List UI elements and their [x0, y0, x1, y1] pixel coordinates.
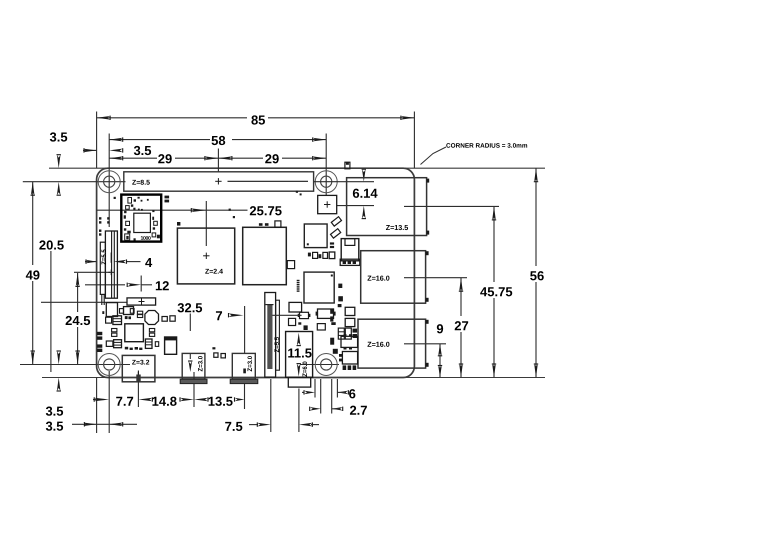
svg-text:Z=3.0: Z=3.0 [198, 355, 204, 371]
parts below LAN chip [308, 252, 335, 259]
dimension 58 [109, 133, 326, 148]
wire hole row top-left [23, 181, 126, 183]
dimension 4 [85, 255, 153, 270]
dimension 14.8 [138, 394, 194, 409]
dimension 32.5 [177, 300, 202, 372]
svg-text:45.75: 45.75 [480, 284, 513, 299]
wire GPIO centre extension [217, 149, 219, 172]
svg-text:Z=16.0: Z=16.0 [367, 340, 390, 349]
wire ethernet centre inner [337, 205, 374, 207]
corner radius note [421, 143, 528, 165]
parts right of camera connector [289, 302, 302, 325]
dimension 27 [452, 278, 472, 378]
RAM U2 [243, 227, 287, 284]
HDMI connector J6 [180, 353, 207, 383]
wire hole row bottom-left [20, 364, 130, 366]
svg-text:32.5: 32.5 [177, 300, 202, 315]
svg-text:6.14: 6.14 [352, 186, 378, 201]
svg-text:7.7: 7.7 [116, 394, 134, 409]
dimension 49 [25, 182, 42, 365]
svg-text:85: 85 [251, 112, 265, 127]
svg-text:6: 6 [349, 386, 356, 401]
svg-text:4: 4 [145, 255, 153, 270]
wire audio centre extension [244, 384, 246, 409]
USB jack J2 [361, 251, 429, 304]
svg-text:25.75: 25.75 [249, 203, 282, 218]
DSI connector J4 [100, 231, 117, 298]
dimension 6.14 [352, 169, 379, 218]
wire HDMI centre extension [193, 372, 195, 407]
svg-text:3.5: 3.5 [45, 404, 63, 419]
wire right edge extension up [413, 112, 415, 169]
wire TR hole row [314, 181, 374, 183]
svg-text:Z=16.0: Z=16.0 [367, 274, 390, 283]
wire camera leader [272, 314, 301, 316]
wire top edge extension [49, 167, 545, 169]
dimension 29 right [218, 151, 326, 166]
GPIO header J8 [124, 172, 314, 191]
parts right of LAN chip [330, 242, 334, 248]
ethernet jack J5 [347, 178, 430, 236]
dimension 13.5 [194, 394, 245, 409]
svg-text:2.7: 2.7 [349, 403, 367, 418]
svg-text:3.5: 3.5 [45, 419, 63, 434]
dimension 11.5 [286, 333, 314, 377]
via speck near module [114, 197, 116, 199]
wire left edge extensions [96, 112, 98, 434]
USB hub chip U4 [304, 272, 334, 303]
svg-text:CORNER RADIUS = 3.0mm: CORNER RADIUS = 3.0mm [446, 143, 528, 150]
module inner IC [134, 213, 151, 232]
micro-USB power J1 [122, 355, 155, 381]
wire ethernet centre leader [404, 205, 499, 207]
bottom-right small parts [330, 284, 357, 370]
wireless module shield [121, 195, 161, 242]
camera connector J3 body [265, 293, 281, 378]
wire usb2 centre leader [404, 343, 446, 345]
pads above RAM [259, 221, 281, 227]
mounting hole BR [315, 354, 337, 376]
svg-text:Z=6.0: Z=6.0 [303, 361, 309, 377]
mounting hole TL [98, 171, 120, 193]
module side pads [165, 196, 170, 203]
audio jack J7 [230, 353, 258, 383]
svg-text:Z=5.5: Z=5.5 [102, 249, 108, 265]
header J plus-square [318, 195, 337, 213]
wire hole column left [108, 134, 110, 434]
dimension 7 [215, 306, 244, 353]
svg-text:56: 56 [530, 268, 544, 283]
via dots top-left [99, 217, 110, 236]
mounting hole TR [315, 171, 337, 193]
svg-text:7: 7 [215, 308, 222, 323]
svg-text:11.5: 11.5 [287, 345, 312, 360]
svg-text:9: 9 [436, 321, 443, 336]
dimension 20.5 [39, 237, 64, 372]
svg-text:20.5: 20.5 [39, 237, 64, 252]
wire usb1 centre leader [404, 277, 467, 279]
header J plus-bar [127, 298, 156, 305]
LED D1 [331, 217, 341, 226]
svg-text:29: 29 [158, 151, 172, 166]
wire header row left [41, 301, 127, 303]
AV connector Z=6.0 [286, 332, 313, 388]
connector below ethernet [340, 239, 360, 266]
svg-text:14.8: 14.8 [152, 394, 177, 409]
svg-text:Z=8.5: Z=8.5 [132, 180, 150, 187]
dimension 3.5 top [83, 143, 152, 158]
svg-text:13.5: 13.5 [208, 394, 233, 409]
pad right of RAM [287, 261, 294, 269]
via dots centre [229, 191, 302, 219]
LED D2 [330, 229, 340, 238]
dimension 12 [85, 276, 169, 294]
svg-text:Z=3.2: Z=3.2 [132, 359, 150, 366]
dimension 6 [302, 379, 356, 401]
wire hole column right [325, 134, 327, 196]
module small parts [124, 197, 160, 242]
pads between HDMI and audio [212, 347, 225, 358]
pad on top edge [345, 162, 350, 169]
dimension 25.75 [97, 203, 283, 218]
svg-text:Z=5.5: Z=5.5 [275, 336, 281, 352]
DSI lower tails [102, 294, 104, 305]
dimension 7.7 [93, 394, 134, 409]
SoC U1 [177, 228, 234, 284]
svg-text:49: 49 [26, 267, 40, 282]
dimension 3.5 bottom-left horizontal [45, 419, 137, 434]
left-mid parts [97, 303, 177, 355]
svg-text:12: 12 [155, 278, 169, 293]
svg-text:3.5: 3.5 [133, 143, 151, 158]
pad above SoC [177, 222, 180, 226]
dimension 85 [97, 112, 415, 127]
wire bottom edge extension [42, 377, 545, 379]
pad strip left of hub chip [297, 280, 300, 292]
USB jack J3 [358, 319, 429, 368]
svg-text:24.5: 24.5 [65, 313, 90, 328]
dimension 29 left [109, 151, 218, 166]
dimension 3.5 left top [50, 129, 68, 195]
small parts below hub chip [298, 309, 336, 330]
LAN controller U3 [304, 224, 327, 248]
svg-text:27: 27 [454, 318, 468, 333]
wire micro-USB centre extension [137, 372, 139, 407]
dimension 9 [435, 321, 446, 377]
wire SoC centre extension [205, 201, 207, 246]
dimension 2.7 [310, 379, 368, 418]
wire hole row bottom-right [300, 364, 339, 366]
svg-text:3.5: 3.5 [50, 129, 68, 144]
dimension 24.5 [63, 273, 93, 365]
svg-text:7.5: 7.5 [225, 419, 243, 434]
dimension 45.75 [478, 206, 516, 377]
dimension 56 [527, 168, 547, 377]
mounting hole BL [98, 354, 120, 376]
svg-text:29: 29 [265, 151, 279, 166]
svg-text:Z=3.0: Z=3.0 [248, 355, 254, 371]
svg-text:Z=2.4: Z=2.4 [205, 269, 223, 276]
svg-text:58: 58 [211, 133, 225, 148]
wire DSI centre row [74, 271, 110, 273]
dimension 3.5 bottom-left vertical [45, 351, 63, 419]
dimension 7.5 [225, 379, 319, 434]
svg-text:Z=13.5: Z=13.5 [386, 223, 409, 232]
board outline [97, 168, 415, 377]
svg-text:1000: 1000 [141, 236, 151, 242]
